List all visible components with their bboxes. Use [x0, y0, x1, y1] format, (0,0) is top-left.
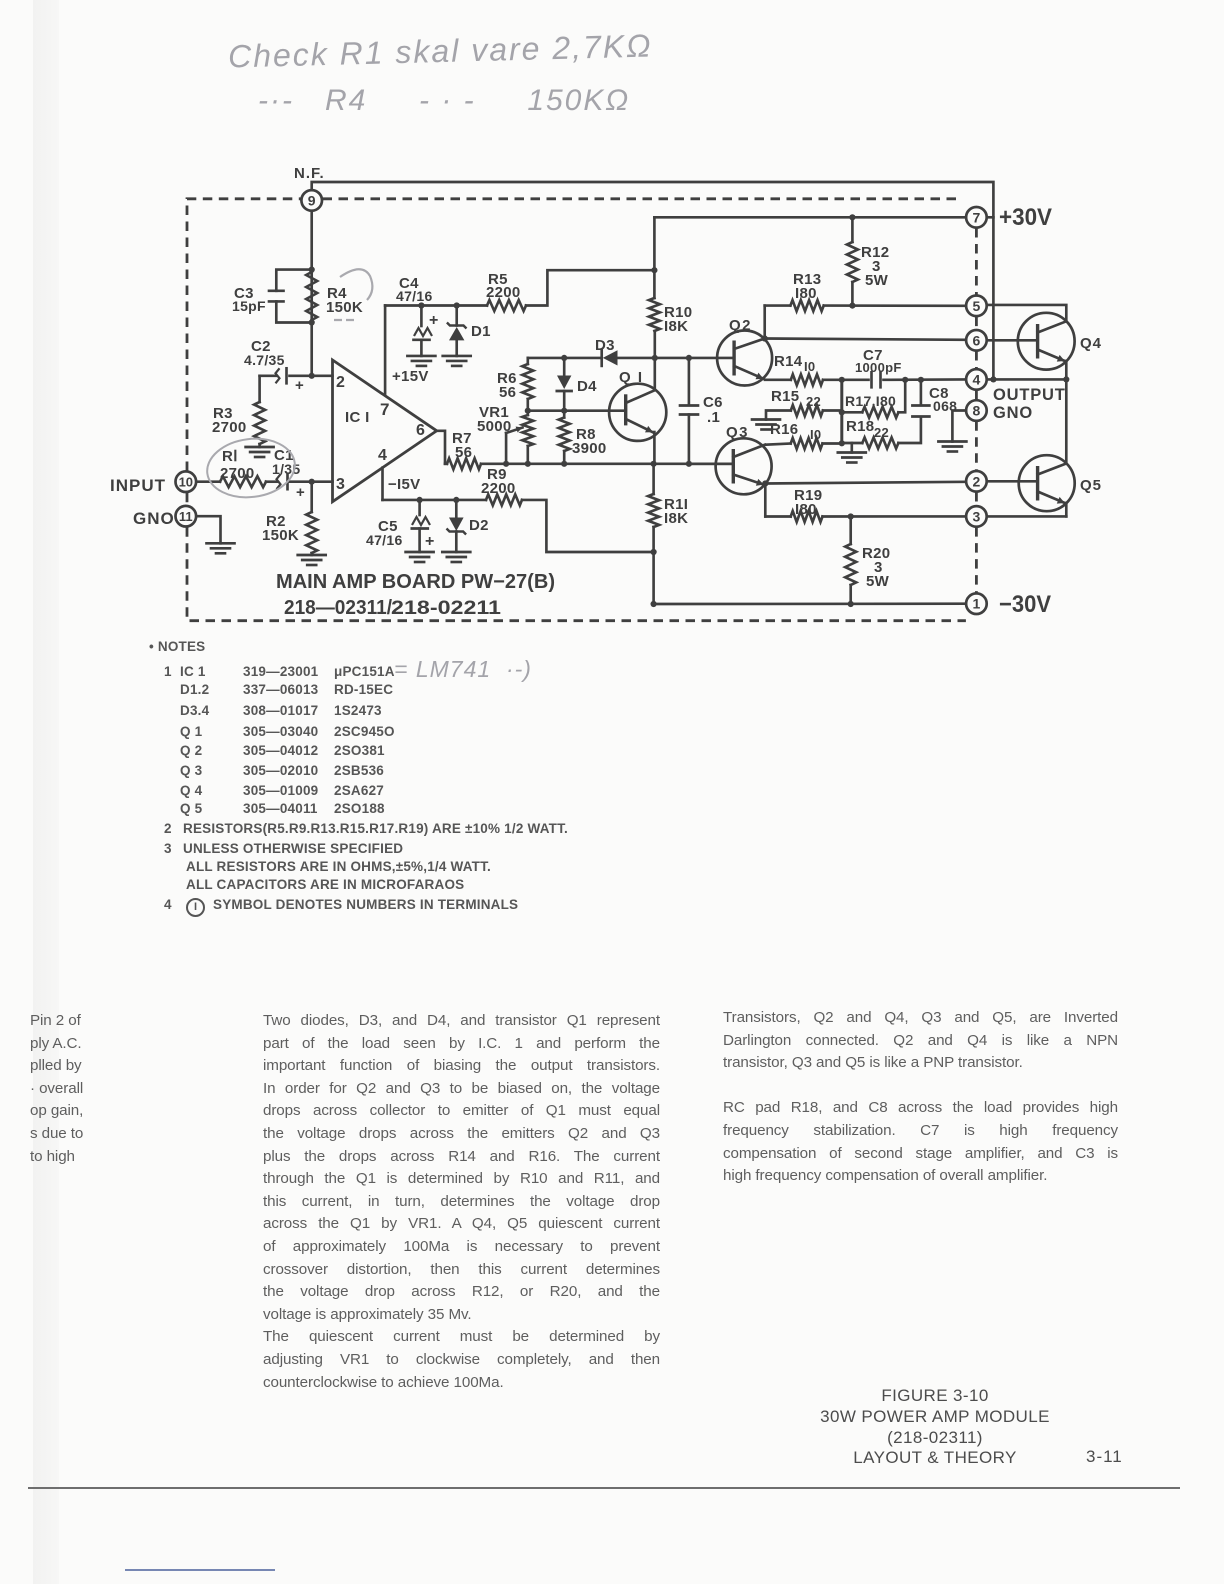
svg-text:+: + [429, 312, 439, 329]
svg-text:Q2: Q2 [729, 317, 752, 334]
svg-text:I80: I80 [795, 285, 817, 302]
svg-text:2200: 2200 [486, 284, 521, 301]
svg-text:GNO: GNO [993, 404, 1033, 422]
svg-text:10: 10 [179, 475, 193, 490]
svg-text:D4: D4 [577, 378, 597, 395]
svg-text:R16: R16 [770, 421, 798, 438]
svg-text:15pF: 15pF [232, 298, 266, 314]
svg-text:D2: D2 [469, 517, 489, 534]
svg-text:150K: 150K [326, 299, 363, 316]
svg-text:+: + [295, 377, 304, 394]
svg-text:2700: 2700 [220, 465, 255, 482]
svg-text:4.7/35: 4.7/35 [244, 352, 285, 368]
svg-text:R14: R14 [774, 353, 803, 370]
svg-text:47/16: 47/16 [366, 532, 403, 548]
svg-text:I0: I0 [810, 427, 821, 442]
svg-text:I8K: I8K [664, 318, 688, 335]
svg-text:R15: R15 [771, 388, 799, 405]
svg-text:7: 7 [973, 209, 981, 225]
svg-text:4: 4 [378, 447, 387, 464]
svg-text:7: 7 [380, 400, 390, 419]
svg-text:6: 6 [416, 422, 425, 439]
svg-text:4: 4 [973, 371, 981, 387]
svg-text:1: 1 [973, 596, 981, 612]
svg-text:R17,I80: R17,I80 [845, 393, 896, 409]
svg-text:OUTPUT: OUTPUT [993, 386, 1066, 404]
svg-text:.1: .1 [707, 409, 720, 426]
svg-text:56: 56 [499, 384, 516, 401]
svg-text:2700: 2700 [212, 419, 247, 436]
svg-text:I0: I0 [804, 359, 815, 374]
svg-text:5000: 5000 [477, 418, 512, 435]
svg-text:I80: I80 [795, 501, 817, 518]
svg-text:Q3: Q3 [726, 424, 749, 441]
svg-text:5W: 5W [865, 272, 889, 289]
svg-text:+: + [296, 484, 305, 501]
svg-text:9: 9 [308, 192, 316, 208]
svg-text:47/16: 47/16 [396, 288, 433, 304]
svg-text:−30V: −30V [999, 591, 1051, 618]
svg-text:56: 56 [455, 444, 472, 461]
svg-text:D1: D1 [471, 323, 491, 340]
svg-text:8: 8 [973, 403, 981, 419]
svg-text:2: 2 [336, 374, 345, 391]
svg-text:11: 11 [179, 509, 193, 524]
svg-text:INPUT: INPUT [110, 476, 166, 495]
svg-text:MAIN AMP BOARD PW−27(B): MAIN AMP BOARD PW−27(B) [276, 571, 555, 593]
svg-text:5W: 5W [866, 573, 890, 590]
svg-text:+: + [425, 533, 435, 550]
svg-text:1/35: 1/35 [272, 461, 300, 477]
svg-text:6: 6 [973, 332, 981, 348]
svg-text:3: 3 [336, 476, 345, 493]
svg-text:2: 2 [973, 473, 981, 489]
svg-text:22: 22 [874, 425, 889, 440]
svg-text:+30V: +30V [999, 204, 1052, 231]
svg-text:+15V: +15V [392, 368, 429, 385]
svg-text:Q I: Q I [619, 369, 644, 386]
svg-text:RⅠ: RⅠ [222, 448, 238, 465]
svg-text:218—02311/: 218—02311/ [284, 597, 392, 619]
svg-text:Q4: Q4 [1080, 335, 1102, 352]
svg-text:3: 3 [973, 508, 981, 524]
svg-text:5: 5 [973, 298, 981, 314]
svg-text:22: 22 [806, 394, 821, 409]
svg-text:I8K: I8K [664, 510, 688, 527]
svg-text:−I5V: −I5V [388, 476, 420, 493]
svg-text:2200: 2200 [481, 480, 516, 497]
svg-text:218-02211: 218-02211 [391, 598, 502, 619]
svg-text:1000pF: 1000pF [855, 360, 902, 375]
svg-text:D3: D3 [595, 337, 615, 354]
svg-text:GNO: GNO [133, 509, 175, 528]
svg-text:3900: 3900 [572, 440, 607, 457]
svg-text:R18: R18 [846, 418, 874, 435]
svg-text:N.F.: N.F. [294, 165, 325, 182]
svg-text:IC I: IC I [345, 409, 370, 426]
svg-text:150K: 150K [262, 527, 299, 544]
svg-text:Q5: Q5 [1080, 477, 1102, 494]
